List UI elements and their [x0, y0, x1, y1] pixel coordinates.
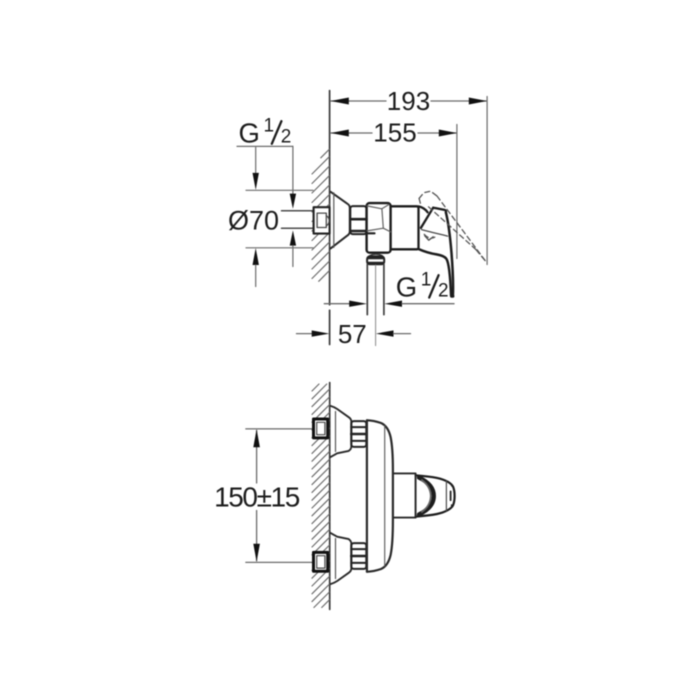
svg-text:57: 57 [338, 319, 367, 349]
connection nut (side view) [350, 206, 366, 234]
svg-text:Ø70: Ø70 [228, 205, 279, 235]
handle cap cone (side view) [419, 206, 447, 228]
svg-text:2: 2 [438, 280, 449, 301]
handle notch mark [425, 236, 434, 241]
svg-text:155: 155 [373, 118, 416, 148]
wall hatching (side view) [312, 149, 329, 281]
dimension diameter 70 lower arrow [253, 248, 259, 265]
BOTTOM DRAWING (front view) [214, 383, 455, 610]
cartridge collar (bottom view) [393, 473, 416, 517]
mixer body dome (bottom view) [367, 420, 393, 572]
svg-text:1: 1 [421, 269, 432, 290]
svg-text:G: G [396, 271, 417, 302]
outlet shoulder arcs [369, 254, 382, 256]
outlet pipe G1/2 thread [366, 264, 368, 314]
label G 1/2 (wall supply) [239, 116, 292, 149]
svg-text:193: 193 [387, 86, 430, 116]
dimension G1/2 outlet arrows [324, 301, 454, 307]
knob face line [445, 481, 447, 511]
top flange base line [335, 412, 337, 452]
handle inner seam line [422, 230, 448, 237]
svg-text:G: G [239, 118, 260, 149]
handle knob (bottom view) [416, 475, 455, 516]
pipe centerline extension [375, 265, 377, 346]
extension line bottom union [246, 561, 312, 563]
bottom flange cone [331, 533, 352, 584]
top flange cone [331, 406, 352, 457]
extension line 155 [456, 125, 458, 259]
wall face line (side view) [329, 91, 331, 305]
housing face lines [367, 205, 391, 232]
svg-text:150±15: 150±15 [214, 482, 300, 513]
wall face line (bottom view) [329, 383, 331, 610]
TOP DRAWING (side view) [228, 86, 487, 349]
bottom union square [314, 552, 328, 571]
top union square [314, 419, 328, 438]
dimension G1/2 outlet label [396, 269, 449, 302]
dimension diameter 70 upper arrow [255, 148, 257, 174]
wall hatching (bottom view) [312, 384, 329, 608]
bottom flange base line [335, 539, 337, 579]
supply pipe stub in wall [282, 210, 315, 212]
svg-text:1: 1 [264, 116, 275, 137]
leader G1/2 lower up arrow [290, 230, 296, 245]
temperature stop marks [450, 491, 452, 500]
body cylinder (side view) [391, 206, 419, 249]
lever shadow arc [422, 480, 431, 512]
dimension 155 [331, 118, 458, 148]
svg-text:2: 2 [281, 127, 292, 148]
body face line [384, 426, 386, 567]
leader G1/2 vertical with down arrow [292, 146, 294, 194]
extension line 193 [486, 97, 488, 265]
escutcheon base ring line [333, 193, 335, 248]
extension line top union [246, 428, 312, 430]
wall union elbow (side view) [314, 207, 330, 233]
extension line flange top [246, 189, 313, 191]
hose union nut (side view) [367, 256, 384, 264]
cartridge housing with outlet elbow (side view) [367, 203, 391, 253]
dimension 150 plus/minus 15 [214, 429, 300, 561]
lever blade (side view) [446, 213, 453, 296]
lever seen from above (crescent) [419, 478, 434, 515]
lever raised position (dashed) [419, 191, 486, 262]
escutcheon flange cone (side view) [331, 192, 350, 249]
bottom connection nut [351, 543, 366, 569]
dimension 193 [331, 86, 488, 116]
housing step line [367, 232, 375, 234]
extension line flange bottom [246, 247, 313, 249]
leader line G1/2 underline [237, 145, 293, 147]
top connection nut [351, 421, 366, 447]
dimension 57 [297, 319, 411, 349]
